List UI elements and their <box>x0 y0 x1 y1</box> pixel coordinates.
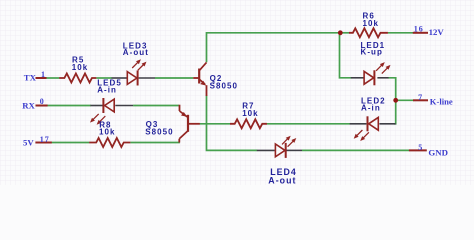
resistor R8 <box>89 138 130 147</box>
transistor Q2 (NPN S8050) <box>193 62 206 96</box>
svg-text:17: 17 <box>40 135 50 144</box>
LED5 diode (points left) <box>103 98 114 113</box>
LED1 diode <box>364 70 374 85</box>
svg-text:K-up: K-up <box>361 48 383 57</box>
LED3 lead right <box>139 77 155 79</box>
svg-text:K-line: K-line <box>430 96 453 106</box>
wire LED1 to K-line node <box>388 78 395 101</box>
LED5 lead right <box>115 105 133 107</box>
LED2 lead left <box>350 123 367 125</box>
svg-text:A-in: A-in <box>361 104 381 113</box>
wire LED4 to GND pin <box>302 149 409 151</box>
wire junction to R6 left <box>340 32 349 34</box>
LED4 diode <box>275 143 285 158</box>
LED5 lead left <box>90 105 102 107</box>
svg-text:A-out: A-out <box>268 175 296 185</box>
LED3 arrows (A-out) <box>132 59 146 70</box>
LED2 arrows (A-in) <box>354 130 369 141</box>
svg-text:0: 0 <box>40 97 45 106</box>
wire LED5 to Q3 emitter <box>133 105 179 107</box>
svg-text:16: 16 <box>414 24 424 33</box>
wire TX pin to R5 <box>46 77 59 79</box>
wire R5 to LED3 <box>96 77 112 79</box>
pin stub 12V (pin 16) <box>413 32 428 34</box>
svg-text:12V: 12V <box>429 27 445 37</box>
svg-text:A-in: A-in <box>97 86 117 95</box>
LED1 lead left <box>351 77 364 79</box>
transistor Q3 (PNP-drawn S8050) <box>179 105 200 143</box>
wire 5V pin to R8 <box>51 142 89 144</box>
LED3 diode <box>127 71 137 86</box>
svg-text:7: 7 <box>418 93 423 102</box>
wire branch down to LED1 <box>340 34 352 78</box>
wire RX pin to LED5 <box>47 105 91 107</box>
wire Q3 base to R7 <box>200 123 231 125</box>
svg-text:TX: TX <box>24 73 37 83</box>
wire R7 to LED2 <box>267 123 350 125</box>
pin stub K-line (pin 7) <box>413 99 428 101</box>
LED3 lead left <box>112 77 127 79</box>
wire LED3 to Q2 base <box>155 77 193 79</box>
wire R8 to Q3 collector <box>130 142 180 144</box>
LED1 lead right <box>377 77 388 79</box>
pin stub GND (pin 5) <box>409 149 427 151</box>
svg-text:A-out: A-out <box>123 48 149 57</box>
svg-text:10k: 10k <box>72 63 89 72</box>
junction node K-line <box>393 98 398 103</box>
resistor R7 <box>230 119 267 128</box>
LED5 arrows (A-in) <box>90 114 105 125</box>
LED4 arrows (A-out) <box>282 136 296 147</box>
LED4 lead right <box>286 149 302 151</box>
LED2 diode (points left) <box>368 116 379 131</box>
resistor R6 <box>349 28 388 37</box>
wire K-line node down to LED2 <box>394 100 396 124</box>
junction node R6/LED1 <box>338 30 343 35</box>
svg-text:GND: GND <box>428 147 448 157</box>
svg-text:10k: 10k <box>242 109 259 118</box>
pin stub 5V (pin 17) <box>35 142 51 144</box>
svg-text:1: 1 <box>41 70 46 79</box>
wire Q2 emitter down to LED4 <box>207 96 258 151</box>
svg-text:5: 5 <box>418 143 423 152</box>
LED2 lead right <box>379 123 395 125</box>
svg-text:10k: 10k <box>99 128 116 137</box>
svg-text:S8050: S8050 <box>145 127 173 136</box>
wire Q2 collector riser to R6 <box>207 33 342 62</box>
svg-text:RX: RX <box>22 100 35 110</box>
svg-text:5V: 5V <box>23 138 34 148</box>
svg-text:S8050: S8050 <box>210 81 238 90</box>
resistor R5 <box>59 74 96 83</box>
pin stub RX (pin 0) <box>36 105 48 107</box>
svg-text:10k: 10k <box>363 19 380 28</box>
pin stub TX (pin 1) <box>36 77 47 79</box>
LED4 lead left <box>257 149 275 151</box>
wire K-line node to pin 7 <box>396 99 414 101</box>
wire R6 to 12V pin <box>388 32 413 34</box>
LED1 arrows (K-up) <box>376 62 390 73</box>
